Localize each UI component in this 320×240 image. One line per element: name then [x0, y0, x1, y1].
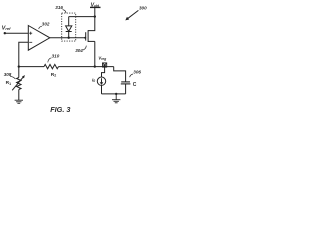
svg-text:FIG. 3: FIG. 3 [50, 105, 70, 114]
svg-text:316: 316 [55, 5, 63, 10]
wire bottom [102, 93, 126, 95]
node dot bottom ground junction [115, 93, 117, 95]
wire R2 to Vreg node [59, 66, 114, 68]
wire Vref to op-amp + input [5, 32, 29, 34]
ground right [112, 94, 120, 103]
wire Vreg junction to current source [102, 67, 105, 77]
node dot Vref [4, 32, 6, 34]
node dot at gate [84, 37, 86, 39]
svg-text:Vreg: Vreg [98, 55, 106, 61]
node dot diode cathode / output wire [68, 37, 70, 39]
figure reference arrow 300 [125, 10, 138, 20]
leader 302 [39, 26, 42, 29]
leader 306 [130, 74, 133, 77]
svg-text:C: C [133, 82, 137, 88]
wire staircase Vreg to capacitor [114, 67, 126, 82]
arrow of variable resistor R1 [12, 75, 25, 90]
svg-text:R2: R2 [51, 72, 56, 78]
svg-text:306: 306 [133, 70, 141, 75]
svg-text:Vref: Vref [2, 26, 12, 32]
resistor R2 [44, 64, 59, 68]
ground left [15, 100, 23, 103]
node Vreg pad symbol [103, 63, 107, 67]
power Vdd rail bar [90, 6, 101, 8]
leader 308 [10, 76, 15, 79]
diode D316 [66, 17, 72, 38]
op-amp + input sign [29, 32, 32, 35]
svg-text:300: 300 [139, 5, 147, 10]
wire Vdd rail to drain [88, 7, 95, 30]
op-amp U302 [28, 26, 50, 51]
svg-text:I0: I0 [92, 78, 95, 84]
wire diode anode to Vdd rail [69, 16, 95, 18]
leader 316 [63, 10, 66, 13]
leader 310 [48, 58, 52, 63]
wire current source to bottom [101, 85, 103, 94]
svg-text:R1: R1 [6, 80, 11, 86]
resistor R1 variable [17, 78, 21, 90]
wire op-amp output to gate [50, 37, 86, 39]
node dot feedback junction [18, 65, 20, 67]
current source I0 [97, 77, 105, 85]
svg-text:304: 304 [75, 48, 83, 53]
transistor Q304 [86, 30, 95, 42]
wire R1 branch [18, 67, 20, 78]
node dot anode wire / Vdd rail [94, 15, 96, 17]
wire feedback to - input [19, 42, 29, 66]
wire R1 to ground [18, 90, 20, 101]
wire source to Vreg node [94, 41, 96, 66]
leader 304 [83, 46, 86, 50]
op-amp - input sign [29, 41, 32, 43]
wire Vreg feedback horizontal [19, 66, 44, 68]
capacitor C306 [121, 82, 131, 94]
svg-text:310: 310 [52, 53, 60, 58]
dashed box 316 [62, 13, 76, 41]
svg-text:302: 302 [42, 22, 50, 27]
node dot source / feedback wire [94, 65, 96, 67]
node dot Vreg junction [103, 65, 105, 67]
